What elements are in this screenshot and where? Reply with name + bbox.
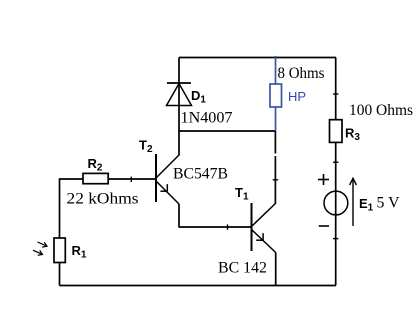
minus sign of E1 <box>319 225 329 227</box>
transistor T2 emitter diagonal with arrow <box>156 181 179 204</box>
transistor T1 collector diagonal <box>252 204 276 227</box>
wire T2 emitter to T1 base <box>179 226 252 228</box>
svg-text:100 Ohms: 100 Ohms <box>349 102 413 119</box>
wire T2 collector vertical <box>178 131 180 156</box>
diode D1 cathode bar <box>167 82 191 84</box>
svg-text:5 V: 5 V <box>377 195 400 212</box>
battery E1 circle <box>324 191 348 215</box>
wire T1 collector vertical lower <box>274 156 276 204</box>
transistor T2 base bar <box>155 154 157 202</box>
svg-text:8 Ohms: 8 Ohms <box>278 65 325 82</box>
photoresistor R1 body <box>54 238 65 263</box>
svg-text:BC547B: BC547B <box>173 166 228 183</box>
resistor R2 body <box>83 173 108 183</box>
transistor T1 base bar <box>251 203 253 251</box>
junction tick on right rail above plus <box>333 161 338 163</box>
junction tick on T1 collector wire <box>273 179 278 181</box>
wire right rail upper segment <box>335 58 337 121</box>
wire top rail node VCC <box>179 57 336 59</box>
resistor R3 body <box>330 120 343 143</box>
junction tick on right rail <box>333 93 338 95</box>
svg-text:BC 142: BC 142 <box>218 260 267 277</box>
wire right rail lower segment <box>335 142 337 285</box>
light arrow 2 into R1 <box>33 250 43 255</box>
wire T2 emitter vertical <box>178 204 180 228</box>
speaker HP body (8 ohm) <box>270 84 282 107</box>
wire diode branch vertical <box>178 58 180 132</box>
transistor T1 emitter diagonal with arrow <box>252 230 276 253</box>
wire bottom rail node GND <box>60 285 337 287</box>
wire T1 collector vertical upper <box>274 131 276 154</box>
junction tick on base wire <box>130 177 132 182</box>
wire left rail <box>59 178 61 285</box>
junction tick on right rail below minus <box>333 238 338 240</box>
wire base line from left rail to T2 <box>60 178 157 180</box>
wire mid rail from diode bottom to HP bottom <box>179 130 276 132</box>
diode D1 triangle <box>167 84 192 106</box>
light arrow 1 into R1 <box>38 242 48 247</box>
wire speaker branch blue vertical <box>275 56 277 131</box>
svg-text:HP: HP <box>288 89 306 104</box>
svg-text:1N4007: 1N4007 <box>181 110 233 127</box>
plus sign of E1 <box>318 174 329 185</box>
svg-text:22 kOhms: 22 kOhms <box>67 191 139 208</box>
transistor T2 collector diagonal <box>156 155 179 178</box>
junction tick on T1 base wire <box>227 224 229 229</box>
arrow of source E1 <box>350 178 357 226</box>
wire T1 emitter vertical to ground rail <box>275 253 277 286</box>
